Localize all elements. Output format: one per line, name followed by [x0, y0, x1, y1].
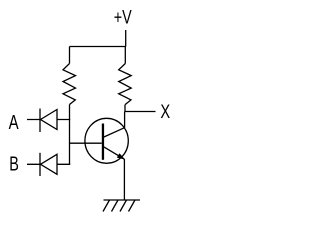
- svg-text:+V: +V: [114, 8, 132, 29]
- svg-text:A: A: [9, 112, 19, 134]
- svg-text:X: X: [160, 102, 170, 123]
- svg-text:B: B: [9, 154, 19, 176]
